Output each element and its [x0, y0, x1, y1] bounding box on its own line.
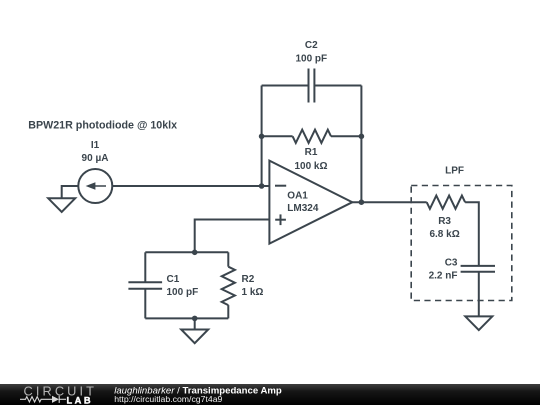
- node junction dot top of C1/R2: [192, 250, 198, 256]
- wire ground stem below C1/R2: [194, 318, 196, 329]
- svg-text:LPF: LPF: [445, 166, 464, 177]
- logo schematic squiggle with resistor and diode: [20, 396, 66, 403]
- capacitor C3: [461, 266, 495, 272]
- wire R1 right lead: [331, 135, 361, 137]
- wire op-amp output to R3: [352, 201, 426, 203]
- node junction dot bottom of C1/R2: [192, 316, 198, 322]
- capacitor C2: [309, 69, 315, 103]
- wire C3 bottom lead to ground: [478, 272, 480, 317]
- node junction dot on inverting input net: [259, 183, 265, 189]
- label R3 6.8 kΩ: [429, 216, 459, 240]
- wire feedback left vertical: [261, 86, 263, 187]
- wire R2 top lead: [227, 252, 229, 266]
- wire feedback right vertical: [360, 86, 362, 203]
- svg-text:BPW21R photodiode @ 10klx: BPW21R photodiode @ 10klx: [28, 120, 177, 132]
- svg-text:R1: R1: [305, 147, 318, 158]
- label R1 100 kΩ: [294, 147, 327, 172]
- wire from I1 left terminal to ground: [62, 186, 79, 198]
- svg-text:OA1: OA1: [287, 191, 308, 202]
- resistor R1: [293, 130, 331, 143]
- node junction dot feedback-left at R1 level: [259, 134, 265, 140]
- wire C2 right lead: [314, 85, 361, 87]
- svg-text:http://circuitlab.com/cg7t4a9: http://circuitlab.com/cg7t4a9: [114, 394, 222, 404]
- svg-text:I1: I1: [91, 140, 100, 151]
- svg-text:C2: C2: [305, 40, 318, 51]
- ground (below C3): [465, 316, 492, 330]
- wire R1 left lead: [262, 135, 293, 137]
- ground (below C1/R2): [181, 330, 208, 344]
- op-amp OA1: [269, 161, 352, 244]
- svg-text:C3: C3: [445, 257, 458, 268]
- wire C1 bottom lead: [144, 289, 146, 319]
- svg-text:100 pF: 100 pF: [167, 287, 199, 298]
- svg-text:100 kΩ: 100 kΩ: [294, 161, 327, 172]
- label C2 100 pF: [295, 40, 327, 64]
- wire C2 left lead: [262, 85, 309, 87]
- resistor R2: [222, 267, 235, 305]
- capacitor C1: [128, 282, 162, 289]
- wire bottom rail of C1 R2 network: [145, 317, 228, 319]
- label I1 90 µA: [82, 140, 109, 164]
- svg-text:R2: R2: [242, 274, 255, 285]
- label C1 100 pF: [167, 274, 199, 298]
- svg-text:LAB: LAB: [67, 395, 94, 405]
- wire C1 top lead: [144, 252, 146, 282]
- ground (left of I1): [48, 198, 75, 212]
- label R2 1 kΩ: [242, 274, 264, 298]
- node junction dot on output net: [359, 199, 365, 205]
- LPF dashed box: [411, 186, 512, 301]
- node junction dot feedback-right at R1 level: [359, 134, 365, 140]
- svg-text:100 pF: 100 pF: [295, 54, 327, 65]
- label OA1 LM324: [287, 191, 319, 214]
- svg-text:2.2 nF: 2.2 nF: [429, 271, 458, 282]
- wire non-inverting input: [195, 220, 270, 253]
- svg-text:90 µA: 90 µA: [82, 153, 109, 164]
- resistor R3: [427, 196, 465, 209]
- wire top rail of C1 R2 network: [145, 251, 228, 253]
- current source I1: [78, 169, 112, 203]
- svg-text:C1: C1: [167, 274, 180, 285]
- svg-text:1 kΩ: 1 kΩ: [242, 287, 264, 298]
- svg-text:6.8 kΩ: 6.8 kΩ: [429, 229, 459, 240]
- svg-text:LM324: LM324: [287, 203, 319, 214]
- wire R3 right lead down to C3: [465, 202, 479, 266]
- label C3 2.2 nF: [429, 257, 458, 281]
- wire R2 bottom lead: [227, 305, 229, 318]
- svg-text:R3: R3: [438, 216, 451, 227]
- wire from I1 right terminal to op-amp inverting input: [112, 185, 269, 187]
